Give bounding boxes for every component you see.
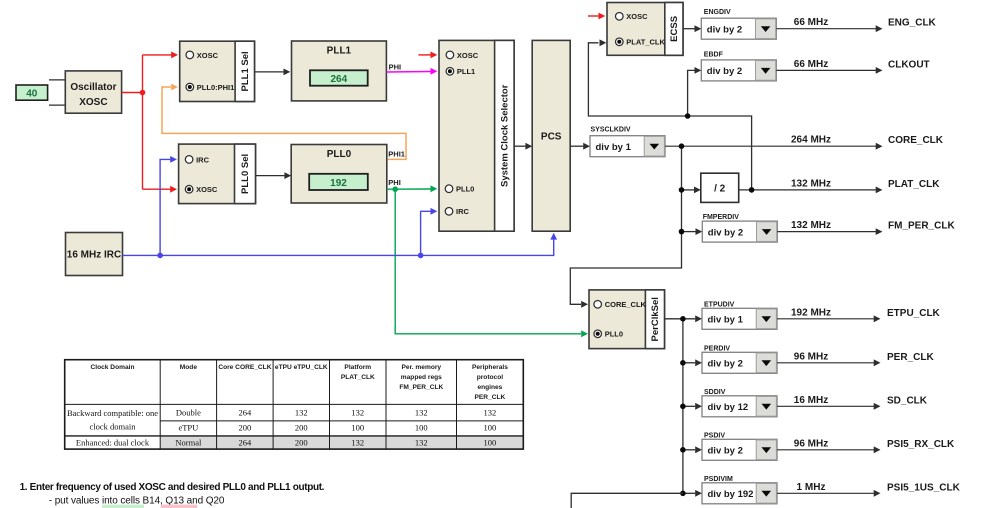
block PLL1 Sel [180,41,255,101]
output row ETPU_CLK 192 MHz [777,307,941,322]
svg-text:100: 100 [484,423,497,433]
dropdown PSDIVIM div by 192 [702,476,777,504]
radio PLL0 (System Clock Selector, unselected) [445,185,474,194]
svg-text:EBDF: EBDF [704,51,724,58]
crystal pin lower [49,104,65,106]
svg-text:16 MHz: 16 MHz [794,395,828,406]
svg-text:132: 132 [295,408,308,418]
wire green PLL0 PHI to System Clock Selector PLL0 [387,185,438,192]
junction dot FMPERDIV input [679,229,685,235]
svg-text:Enhanced: dual clock: Enhanced: dual clock [76,437,150,447]
junction dot blue left [157,253,163,259]
radio PLL0:PHI1 (PLL1 Sel, selected) [186,83,234,92]
block PCS [532,40,570,231]
svg-text:264: 264 [239,437,253,447]
crystal pin upper [49,79,65,81]
svg-text:ECSS: ECSS [669,16,680,42]
radio XOSC (System Clock Selector, unselected) [446,51,479,60]
svg-text:PSI5_1US_CLK: PSI5_1US_CLK [887,482,961,493]
table clock domain modes [65,360,524,449]
svg-text:132: 132 [351,408,364,418]
output row SD_CLK 16 MHz [777,395,928,410]
wire PLL1 Sel output to PLL1 [255,69,291,76]
wire branch to EBDF divider [688,67,702,116]
block PerClkSel [589,290,665,349]
svg-text:PLL1: PLL1 [327,46,352,57]
svg-text:eTPU: eTPU [178,423,198,433]
svg-text:66 MHz: 66 MHz [794,17,828,28]
svg-text:XOSC: XOSC [196,185,218,194]
dropdown PERDIV div by 2 [702,345,777,373]
radio IRC (PLL0 Sel, unselected) [185,155,209,164]
svg-text:PLL1: PLL1 [457,67,475,76]
junction dot PSDIVIM input [680,491,686,497]
svg-text:ENG_CLK: ENG_CLK [888,18,937,29]
svg-text:96 MHz: 96 MHz [794,351,828,362]
dropdown FMPERDIV div by 2 [702,214,777,242]
radio PLL1 (System Clock Selector, selected) [446,67,475,76]
wire orange PLL0 PHI1 feedback to PLL1 Sel [162,84,406,160]
junction dot green at PLL0 PHI [392,186,398,192]
dropdown SYSCLKDIV div by 1 [590,127,665,157]
highlight strip green [102,505,144,508]
wire red stub into System Clock Selector XOSC [418,52,437,59]
svg-text:div by 2: div by 2 [708,446,743,457]
svg-text:XOSC: XOSC [197,51,219,60]
svg-text:FM_PER_CLK: FM_PER_CLK [399,384,443,391]
svg-text:132: 132 [351,437,364,447]
block 16 MHz IRC [66,233,123,276]
svg-text:div by 1: div by 1 [708,315,744,326]
wire bottom-left exit from PSDIVIM junction [571,493,683,508]
svg-text:Normal: Normal [175,437,202,447]
svg-text:PERDIV: PERDIV [704,345,730,352]
svg-text:XOSC: XOSC [457,51,479,60]
svg-text:200: 200 [239,423,252,433]
svg-text:PerClkSel: PerClkSel [650,297,661,341]
svg-text:Core CORE_CLK: Core CORE_CLK [218,364,271,371]
svg-text:System Clock Selector: System Clock Selector [499,84,510,187]
radio PLAT_CLK (ECSS, selected) [616,38,666,47]
svg-text:PLAT_CLK: PLAT_CLK [341,374,375,381]
output row PSI5_RX_CLK 96 MHz [777,438,955,453]
wire stub into PERDIV [683,359,702,366]
svg-text:Clock Domain: Clock Domain [91,364,135,371]
block System Clock Selector [439,40,514,231]
svg-text:FMPERDIV: FMPERDIV [703,214,740,221]
svg-text:PLL0 Sel: PLL0 Sel [240,154,251,194]
junction dot SYSCLKDIV output [679,143,685,149]
wire stub into /2 [682,187,701,194]
svg-text:1. Enter frequency of used XOS: 1. Enter frequency of used XOSC and desi… [20,482,325,493]
svg-text:16 MHz IRC: 16 MHz IRC [67,250,121,261]
wire stub into PSDIVIM [683,490,702,497]
svg-text:CORE_CLK: CORE_CLK [605,300,647,309]
value box 40 (XOSC frequency input cell) [16,85,48,100]
svg-text:clock domain: clock domain [89,422,136,432]
svg-text:PLL1 Sel: PLL1 Sel [240,51,251,91]
svg-text:Platform: Platform [344,364,371,371]
svg-text:192 MHz: 192 MHz [791,307,831,318]
svg-text:132: 132 [415,437,428,447]
output row ENG_CLK 66 MHz [776,17,936,32]
junction dot PLAT_CLK output [749,187,755,193]
svg-text:ETPU_CLK: ETPU_CLK [887,308,941,319]
svg-text:192: 192 [330,178,347,189]
svg-text:eTPU eTPU_CLK: eTPU eTPU_CLK [275,364,328,371]
junction dot /2 input [679,187,685,193]
output row PER_CLK 96 MHz [777,351,934,366]
svg-text:div by 2: div by 2 [707,66,742,77]
wire PLL0 Sel output to PLL0 [256,172,292,179]
svg-text:40: 40 [26,89,38,100]
svg-text:div by 2: div by 2 [708,227,743,238]
output row PLAT_CLK 132 MHz [739,178,941,193]
svg-text:PHI: PHI [389,63,402,72]
output row PSI5_1US_CLK 1 MHz [777,482,961,497]
wire blue branch to System Clock Selector IRC [421,208,438,255]
svg-text:XOSC: XOSC [79,97,107,108]
svg-text:protocol: protocol [477,374,504,381]
svg-text:mapped regs: mapped regs [401,374,442,381]
svg-text:ETPUDIV: ETPUDIV [704,301,735,308]
dropdown ETPUDIV div by 1 [702,301,777,329]
svg-text:PHI: PHI [388,178,401,187]
wire PLAT_CLK feedback to ECSS PLAT_CLK [588,39,751,190]
svg-text:Mode: Mode [180,364,198,371]
svg-text:132: 132 [484,408,497,418]
svg-text:264: 264 [239,408,253,418]
svg-text:132: 132 [415,408,428,418]
svg-text:CLKOUT: CLKOUT [888,59,930,70]
svg-text:PER_CLK: PER_CLK [887,352,934,363]
wire green branch to PerClkSel PLL0 [395,189,588,337]
svg-text:div by 2: div by 2 [707,24,742,35]
wire red XOSC from oscillator to PLL1 Sel and PLL0 Sel [122,52,178,193]
junction dot red at oscillator output [140,90,146,96]
divider box /2 [701,173,739,202]
svg-text:200: 200 [295,437,308,447]
svg-text:96 MHz: 96 MHz [794,438,828,449]
wire stub into SDDIV [683,403,702,410]
svg-text:XOSC: XOSC [626,12,648,21]
svg-text:100: 100 [484,437,497,447]
block PLL1 with value 264 [292,41,387,101]
svg-text:PLL0: PLL0 [456,185,474,194]
radio XOSC (PLL0 Sel, selected) [185,185,218,194]
junction dot PERDIV input [680,360,686,366]
svg-text:200: 200 [295,423,308,433]
svg-text:264 MHz: 264 MHz [791,135,831,146]
wire PerClkSel output trunk down the divider column [665,315,703,493]
wire blue branch to PLL0 Sel IRC [160,156,177,255]
junction dot EBDF branch [685,113,691,119]
dropdown SDDIV div by 12 [702,389,777,417]
svg-text:PLL0: PLL0 [605,330,623,339]
radio XOSC (ECSS, unselected) [616,12,649,21]
svg-text:PHI1: PHI1 [388,149,405,158]
svg-text:264: 264 [330,74,347,85]
svg-text:Peripherals: Peripherals [472,364,508,371]
svg-text:CORE_CLK: CORE_CLK [888,135,944,146]
svg-text:PLAT_CLK: PLAT_CLK [888,179,940,190]
svg-text:SDDIV: SDDIV [704,389,726,396]
wire trunk SYSCLKDIV output down to /2, FMPERDIV and PerClkSel CORE_CLK [570,146,681,307]
svg-text:PCS: PCS [541,131,562,142]
radio IRC (System Clock Selector, unselected) [445,207,469,216]
junction dot blue right [418,253,424,259]
block PLL0 with value 192 [291,145,387,204]
svg-text:100: 100 [415,423,428,433]
dropdown EBDF div by 2 [701,51,776,81]
wire magenta PLL1 PHI to System Clock Selector PLL1 [386,68,437,75]
svg-text:PER_CLK: PER_CLK [475,394,506,401]
svg-text:66 MHz: 66 MHz [794,59,828,70]
svg-text:IRC: IRC [196,155,210,164]
svg-text:1 MHz: 1 MHz [797,482,826,493]
radio CORE_CLK (PerClkSel, unselected) [594,300,647,309]
svg-text:FM_PER_CLK: FM_PER_CLK [888,221,955,232]
block Oscillator XOSC [65,71,121,113]
junction dot ETPUDIV input [680,316,686,322]
svg-text:132 MHz: 132 MHz [791,220,831,231]
block PLL0 Sel [179,144,256,204]
junction dot SDDIV input [680,404,686,410]
radio XOSC (PLL1 Sel, unselected) [186,51,219,60]
dropdown ENGDIV div by 2 [701,9,776,39]
svg-text:/ 2: / 2 [714,183,726,194]
wire System Clock Selector output to PCS [514,143,532,150]
svg-text:PSI5_RX_CLK: PSI5_RX_CLK [887,439,955,450]
wire stub into PSDIV [683,446,702,453]
wire blue 16 MHz IRC trunk to PCS [123,233,558,256]
svg-text:SYSCLKDIV: SYSCLKDIV [591,127,631,134]
wire red stub into ECSS XOSC [588,13,605,20]
svg-text:div by 2: div by 2 [708,359,743,370]
svg-text:Oscillator: Oscillator [70,82,116,93]
svg-text:Double: Double [176,408,201,418]
radio PLL0 (PerClkSel, selected) [594,330,623,339]
wire ECSS output to ENGDIV [683,25,701,32]
svg-text:IRC: IRC [456,207,470,216]
svg-text:Per. memory: Per. memory [402,364,442,371]
svg-text:engines: engines [477,384,502,391]
svg-text:div by 1: div by 1 [596,142,632,153]
svg-text:PSDIVIM: PSDIVIM [704,476,733,483]
wire stub into FMPERDIV [682,228,703,235]
svg-text:SD_CLK: SD_CLK [887,395,928,406]
wire PCS output to SYSCLKDIV [570,143,590,150]
svg-text:PLL0: PLL0 [327,149,352,160]
svg-text:div by 192: div by 192 [708,489,754,500]
svg-text:100: 100 [351,423,364,433]
svg-text:div by 12: div by 12 [708,402,749,413]
svg-text:PLAT_CLK: PLAT_CLK [626,38,665,47]
svg-text:PSDIV: PSDIV [704,432,725,439]
svg-text:PLL0:PHI1: PLL0:PHI1 [197,83,235,92]
output row CLKOUT 66 MHz [776,59,929,74]
svg-text:Backward compatible: one: Backward compatible: one [67,408,158,418]
junction dot PSDIV input [680,447,686,453]
svg-text:132 MHz: 132 MHz [791,178,831,189]
highlight strip pink [161,505,197,508]
block ECSS [607,3,683,56]
output row CORE_CLK 264 MHz [665,135,944,150]
dropdown PSDIV div by 2 [702,432,777,460]
svg-text:ENGDIV: ENGDIV [704,9,731,16]
output row FM_PER_CLK 132 MHz [777,220,955,235]
